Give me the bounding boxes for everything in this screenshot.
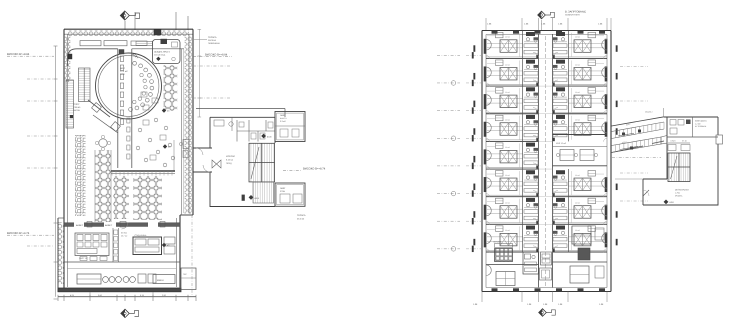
section marker kitchen [162, 243, 166, 247]
core fixtures bottom corridor [540, 252, 552, 280]
double door annex left wall [212, 160, 221, 168]
bottom dimension line [58, 296, 196, 298]
right leader line [193, 39, 207, 41]
outer wall right upper [192, 29, 194, 215]
ramp arrows [618, 133, 634, 136]
annex interior fixtures [214, 120, 224, 126]
svg-text:ЛИФТ: ЛИФТ [280, 187, 286, 190]
rotunda name arc text [131, 52, 139, 60]
ramp flight 2 [612, 137, 662, 153]
svg-text:12 м2: 12 м2 [505, 202, 510, 205]
chair row top wall [68, 30, 189, 36]
kitchen corridor lines [112, 228, 114, 262]
annex rooms top [667, 136, 718, 138]
bottom bath block left [523, 252, 539, 274]
svg-text:12 м2: 12 м2 [575, 36, 580, 39]
guest room R6 [553, 169, 618, 197]
lobby front wall right [132, 48, 184, 50]
stools bottom [103, 277, 109, 283]
bar counter wall [111, 170, 175, 172]
svg-text:САЛ: САЛ [120, 73, 125, 76]
svg-text:2ТОВ: 2ТОВ [280, 190, 286, 193]
svg-text:МИАН: МИАН [157, 279, 164, 282]
right leader line [193, 97, 230, 99]
bottom fixture 2 [148, 274, 156, 283]
corridor cross lines [539, 58, 553, 252]
left plan sheet [7, 11, 326, 318]
svg-text:12 м2: 12 м2 [505, 36, 510, 39]
svg-text:БИФЕТ: БИФЕТ [76, 224, 84, 227]
guest room L7 [473, 197, 538, 225]
annex top room fixtures [670, 120, 676, 126]
partition above bar [173, 140, 175, 171]
annex outline [643, 117, 718, 205]
svg-text:КРОВНА: КРОВНА [675, 195, 683, 198]
svg-text:23.4 м2: 23.4 м2 [297, 217, 305, 220]
exterior stair below [253, 182, 274, 203]
rotunda inner circle [98, 56, 159, 117]
stair shaft left wall [66, 80, 74, 128]
grid line A top [124, 21, 126, 30]
svg-text:СО 120 СЕД.: СО 120 СЕД. [154, 53, 166, 56]
left dim tick [54, 45, 58, 47]
svg-text:12 м2: 12 м2 [505, 91, 510, 94]
dark block top wall [154, 30, 161, 36]
desks near link corridor [183, 140, 189, 149]
bottom right suite [553, 226, 608, 283]
balcony arc bottom-left [486, 265, 491, 276]
svg-text:12 м2: 12 м2 [505, 146, 510, 149]
left leader line [27, 78, 54, 80]
banquette seating strip [75, 135, 86, 216]
dashed vertical right [191, 215, 193, 297]
right plan sheet [437, 10, 648, 316]
bottom dim ticks [57, 295, 59, 301]
counter line below kitchen [67, 268, 176, 270]
dining room fixtures [172, 42, 178, 47]
svg-text:ПОВРШИНА: ПОВРШИНА [208, 42, 220, 45]
grid line C top [175, 12, 177, 30]
top dim ticks [485, 18, 487, 30]
right dim line upper [198, 29, 200, 117]
piano block [161, 39, 168, 44]
walkway tables [120, 56, 123, 61]
annex dashed level line [612, 156, 661, 158]
link door arcs [196, 148, 203, 155]
stair upper-left [79, 68, 91, 102]
bottom fixture 1 [138, 274, 146, 283]
small tables right mid [141, 92, 147, 97]
svg-text:ТЕРАСА: ТЕРАСА [297, 214, 306, 217]
svg-text:2.2 м2: 2.2 м2 [280, 120, 286, 123]
stairwell right annex [668, 153, 690, 182]
rotunda chair ring inner [140, 73, 143, 76]
terrace wall bottom-left [57, 218, 59, 292]
left leader line [27, 167, 54, 169]
bottom grid tick line [152, 292, 154, 297]
section diamond upper [261, 134, 266, 139]
rotunda outer circle [96, 53, 162, 119]
north arrow bottom (left plan) [121, 309, 139, 317]
guest room L1 [473, 31, 538, 59]
svg-text:12 м2: 12 м2 [575, 91, 580, 94]
laundry room [493, 241, 513, 262]
outer wall left [481, 31, 483, 292]
annex door leaf [242, 195, 245, 201]
dark door block left wall [68, 54, 72, 59]
svg-text:ПРЕД: ПРЕД [226, 162, 232, 165]
inner wall right column [181, 49, 183, 215]
kitchen block A [75, 233, 109, 256]
guest room R7 [553, 197, 618, 225]
outer wall top [64, 28, 193, 30]
walkway service block [119, 50, 124, 55]
svg-text:12 м2: 12 м2 [505, 63, 510, 66]
right annex stair block [612, 108, 723, 205]
walkway wall left [117, 49, 119, 168]
svg-text:ШАХТА: ШАХТА [280, 117, 287, 120]
long desk top [136, 41, 153, 45]
guest room R2 [553, 58, 618, 86]
svg-text:ПЛОТ: ПЛОТ [74, 103, 81, 106]
svg-text:12 м2: 12 м2 [575, 63, 580, 66]
kitchen small right [164, 237, 175, 244]
dining room marker [156, 57, 160, 61]
wall piers right plan [492, 31, 606, 292]
bottom grid tick line [89, 292, 91, 297]
svg-text:ЗЕЛЕНА: ЗЕЛЕНА [208, 39, 217, 42]
guest room L5 [473, 141, 538, 169]
buffet divider wall [64, 223, 180, 227]
svg-text:БИФЕТ: БИФЕТ [105, 224, 113, 227]
annex room top-right [275, 112, 305, 142]
private dining room [153, 40, 181, 64]
right leader +8.84 [193, 53, 232, 56]
outer wall bottom (thick) [58, 288, 181, 292]
right plan left grid leaders [437, 52, 482, 252]
attached room bottom-right [181, 268, 196, 290]
north arrow bottom (right plan) [539, 309, 556, 317]
outer wall bottom [482, 291, 611, 293]
table column right [164, 65, 178, 111]
ramp flight 2 treads [611, 146, 613, 153]
walkway wall right [131, 49, 133, 168]
section diamond lower [249, 195, 254, 200]
svg-text:ПЕРАЛНА: ПЕРАЛНА [493, 241, 502, 244]
annex bump right [716, 135, 723, 144]
guest room R4 [553, 114, 618, 142]
lounge door [553, 138, 555, 141]
svg-text:В. ЗАПРТОВАЊЕ: В. ЗАПРТОВАЊЕ [565, 10, 586, 13]
guest room R8 [553, 224, 618, 252]
worktable MIAN [153, 275, 175, 284]
diagonal partition upper [88, 100, 110, 117]
lounge room by link corridor [553, 135, 608, 166]
stair upper room band [668, 142, 690, 144]
marker near stair [70, 115, 73, 118]
chair row right wall [185, 36, 192, 214]
left leader line [27, 245, 54, 247]
svg-text:ВИСОКО В=+8.84: ВИСОКО В=+8.84 [205, 53, 228, 56]
outer wall right [610, 31, 612, 292]
svg-text:ХОЛ 12 м2: ХОЛ 12 м2 [556, 142, 567, 145]
cold kitchen block B [133, 237, 162, 255]
outer wall left [63, 29, 65, 292]
left leader line [27, 135, 54, 137]
mid hall small tables [143, 120, 149, 125]
svg-text:2.2 М2: 2.2 М2 [695, 122, 701, 125]
left dim tick [54, 298, 58, 300]
left dimension line [55, 46, 57, 297]
left leader line [27, 100, 54, 102]
bottom left suite [486, 252, 539, 286]
rotated desk 2 [111, 122, 121, 132]
suite fixtures right [595, 228, 604, 240]
section marker mid hall [162, 108, 166, 112]
rotunda chair ring [133, 61, 137, 65]
svg-text:ЛГ 40: ЛГ 40 [682, 140, 687, 143]
ramp flight 1 treads [611, 132, 613, 139]
buffet opening white gaps [74, 222, 84, 227]
svg-text:38.7 м2: 38.7 м2 [121, 234, 127, 237]
grid line D top [187, 16, 189, 30]
svg-text:12 м2: 12 м2 [575, 174, 580, 177]
annex room bottom-right [275, 183, 305, 206]
right plan bottom annotations [473, 292, 607, 317]
svg-text:12 м2: 12 м2 [575, 229, 580, 232]
lounge table 1 [560, 150, 574, 161]
wall step right [180, 214, 193, 216]
section diamond annex [664, 200, 669, 205]
left dim tick [54, 135, 58, 137]
guest room L2 [473, 58, 538, 86]
scallop band bottom-left [59, 222, 65, 284]
guest room L3 [473, 86, 538, 114]
svg-text:СТОЛ: СТОЛ [671, 140, 677, 143]
sink row [80, 257, 87, 261]
svg-text:СТУД. КУЈНА: СТУД. КУЈНА [135, 234, 148, 237]
svg-text:СКАЛА 2: СКАЛА 2 [645, 111, 652, 114]
worktable bottom left [77, 274, 101, 284]
chair row left wall [65, 36, 71, 82]
svg-text:12 м2: 12 м2 [505, 229, 510, 232]
corridor wall left [538, 34, 540, 288]
long table strip [95, 150, 111, 222]
right leader line [193, 65, 230, 67]
svg-text:8.1К м2: 8.1К м2 [226, 158, 234, 161]
small fixtures on divider [87, 222, 92, 228]
svg-text:12 м2: 12 м2 [575, 202, 580, 205]
svg-text:МЕЃУСПРАТЕН: МЕЃУСПРАТЕН [675, 189, 689, 192]
svg-text:ОБЕДНА ПРОСТ.: ОБЕДНА ПРОСТ. [154, 50, 171, 53]
ramp landing [661, 136, 667, 145]
guest room R3 [553, 86, 618, 114]
svg-text:12 м2: 12 м2 [505, 174, 510, 177]
right leader +8.74 text [283, 167, 326, 170]
stair arrow [671, 156, 678, 179]
annex entry door [643, 190, 649, 196]
scatter chairs mid hall [138, 128, 142, 132]
stairwell [249, 143, 275, 182]
table cluster B [134, 176, 163, 220]
left dim tick [54, 261, 58, 263]
section marker lower hall [163, 144, 167, 148]
guest room L8 [473, 224, 538, 252]
reception counters [80, 41, 101, 46]
svg-text:СОБНИ ПЛАН: СОБНИ ПЛАН [565, 14, 580, 17]
svg-text:12 м2: 12 м2 [575, 119, 580, 122]
kitchen lower wall [64, 261, 180, 263]
north arrow top (left plan) [120, 11, 139, 20]
corridor centerline [545, 36, 547, 286]
lounge chairs [556, 153, 559, 156]
annex wc rooms [236, 120, 238, 142]
grid line B top [134, 12, 136, 30]
lobby curved wall [68, 49, 118, 66]
left dim tick [54, 222, 58, 224]
guest room R1 [553, 31, 618, 59]
left dim tick [54, 100, 58, 102]
svg-text:ВИСОКО В=+8.74: ВИСОКО В=+8.74 [303, 167, 326, 170]
svg-text:ХОЛ/СКЛ: ХОЛ/СКЛ [226, 155, 236, 158]
left leader label +4.74 [7, 232, 54, 235]
svg-text:БЕЛ: БЕЛ [120, 67, 125, 70]
svg-text:ЛИФТ ШАХТА: ЛИФТ ШАХТА [695, 120, 707, 123]
left annex stair tower [193, 109, 305, 207]
svg-text:2.7М2: 2.7М2 [675, 192, 680, 195]
ramp dark marks [622, 133, 625, 136]
corridor wall right [552, 34, 554, 288]
kitchen door arc [122, 223, 129, 230]
svg-text:ЛЕВ 40: ЛЕВ 40 [74, 106, 82, 109]
bar ticks [111, 171, 113, 176]
table strip edge [94, 150, 96, 222]
ramp flight 1 [612, 122, 665, 139]
svg-text:ВИСОКО В=+4.74: ВИСОКО В=+4.74 [7, 232, 30, 235]
round table entry [99, 139, 107, 147]
walk edge line [615, 178, 643, 180]
svg-text:ВИСОКО В=+8.84: ВИСОКО В=+8.84 [7, 53, 30, 56]
outer wall top [482, 30, 611, 32]
north arrow top (right plan) [538, 11, 555, 19]
link corridor walls [193, 147, 212, 149]
svg-text:12 м2: 12 м2 [505, 119, 510, 122]
guest room L6 [473, 169, 538, 197]
right dim ticks [198, 29, 202, 31]
outer wall right lower [179, 215, 181, 288]
left dim tick [54, 167, 58, 169]
table cluster A [114, 176, 130, 219]
left dim tick [54, 78, 58, 80]
svg-text:КУЈНА: КУЈНА [121, 232, 128, 235]
right plan top annotations [486, 10, 611, 30]
left leader label +8.84 [7, 53, 54, 56]
terrace edge line [196, 108, 285, 110]
svg-text:ТЕРАСА: ТЕРАСА [208, 36, 217, 39]
guest room L4 [473, 114, 538, 142]
lounge table 2 [580, 150, 594, 161]
stair arrow [251, 147, 259, 179]
svg-text:ЛИФТ: ЛИФТ [280, 114, 286, 117]
annex outline [210, 117, 275, 206]
rotated desk 1 [92, 103, 102, 113]
right margin grid leaders [620, 66, 648, 201]
svg-text:М. ТЕЛЕФОН: М. ТЕЛЕФОН [695, 125, 707, 128]
svg-text:ВАГОН: ВАГОН [74, 109, 81, 112]
ramp outline [612, 117, 665, 153]
diagonal partition lower [93, 115, 118, 133]
